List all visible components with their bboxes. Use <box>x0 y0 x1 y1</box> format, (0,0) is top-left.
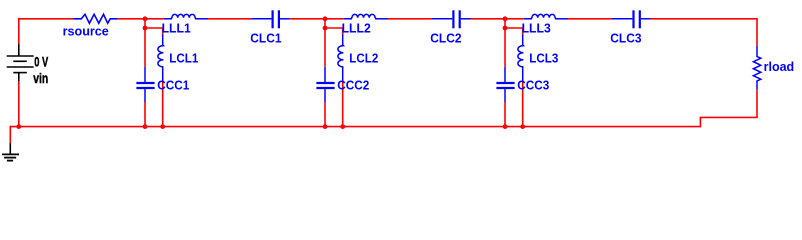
svg-text:LLL3: LLL3 <box>522 22 551 36</box>
svg-text:LLL2: LLL2 <box>342 22 371 36</box>
resistor rsource <box>74 14 118 23</box>
wire rail LLL3 to CLC3 <box>568 18 612 20</box>
capacitor CLC1 <box>252 10 290 28</box>
wire battery to bottom rail <box>18 81 20 126</box>
wire node N2 verticals and stub <box>325 19 343 67</box>
svg-text:vin: vin <box>33 70 48 86</box>
svg-text:rsource: rsource <box>63 24 109 38</box>
inductor LLL3 <box>524 14 568 18</box>
resistor rload <box>753 46 760 89</box>
svg-text:LLL1: LLL1 <box>162 22 191 36</box>
wire node N1 verticals and stub <box>145 19 163 67</box>
svg-text:CLC3: CLC3 <box>610 31 641 45</box>
svg-text:LCL2: LCL2 <box>349 52 378 66</box>
wire CCC1 to bottom rail <box>144 102 146 127</box>
wire bottom rail <box>10 89 757 143</box>
wire rail CLC2 to node N3 <box>471 18 524 20</box>
wire rail CLC1 to node N2 <box>290 18 344 20</box>
capacitor CLC3 <box>612 10 651 28</box>
wire rail LLL1 to CLC1 <box>208 18 252 20</box>
wire CCC2 to bottom rail <box>324 102 326 127</box>
inductor LCL2 <box>338 34 344 80</box>
inductor LCL3 <box>518 34 524 80</box>
wire node N3 verticals and stub <box>505 19 523 67</box>
inductor LLL1 <box>164 14 208 18</box>
svg-text:CCC3: CCC3 <box>517 78 549 92</box>
svg-text:LCL1: LCL1 <box>169 52 198 66</box>
wire rail rsource to LLL1 <box>118 18 164 20</box>
node N3 dots <box>503 16 508 21</box>
capacitor CCC3 <box>496 67 514 102</box>
svg-text:LCL3: LCL3 <box>529 52 558 66</box>
svg-text:CCC2: CCC2 <box>337 78 369 92</box>
capacitor CLC2 <box>432 10 471 28</box>
wire LCL3 to bottom rail <box>522 81 524 127</box>
svg-text:CCC1: CCC1 <box>157 78 189 92</box>
wire rail LLL2 to CLC2 <box>388 18 432 20</box>
wire rail CLC3 to right corner <box>651 19 758 46</box>
wire LCL2 to bottom rail <box>342 81 344 127</box>
inductor LLL2 <box>344 14 388 18</box>
capacitor CCC1 <box>136 67 154 102</box>
battery V vin <box>7 44 34 81</box>
wire top-left vertical <box>19 19 74 45</box>
ground <box>2 143 19 161</box>
svg-text:0 V: 0 V <box>34 54 48 70</box>
svg-text:rload: rload <box>764 60 795 74</box>
node dot bottom-left <box>16 124 21 129</box>
svg-text:CLC1: CLC1 <box>250 31 281 45</box>
capacitor CCC2 <box>316 67 334 102</box>
node N2 dots <box>323 16 328 21</box>
wire CCC3 to bottom rail <box>504 102 506 127</box>
wire LCL1 to bottom rail <box>162 81 164 127</box>
inductor LCL1 <box>158 34 164 80</box>
node N1 dots <box>143 16 148 21</box>
svg-text:CLC2: CLC2 <box>430 31 461 45</box>
